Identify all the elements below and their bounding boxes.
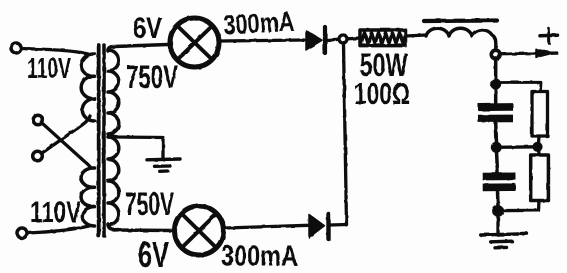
svg-text:300mA: 300mA bbox=[221, 241, 298, 273]
svg-text:110V: 110V bbox=[27, 53, 71, 85]
svg-text:300mA: 300mA bbox=[223, 6, 296, 41]
svg-text:750V: 750V bbox=[126, 59, 178, 95]
svg-text:750V: 750V bbox=[125, 186, 174, 222]
svg-text:6V: 6V bbox=[138, 234, 169, 273]
svg-text:110V: 110V bbox=[30, 196, 81, 229]
svg-text:6V: 6V bbox=[133, 12, 162, 45]
svg-text:100Ω: 100Ω bbox=[354, 76, 410, 111]
